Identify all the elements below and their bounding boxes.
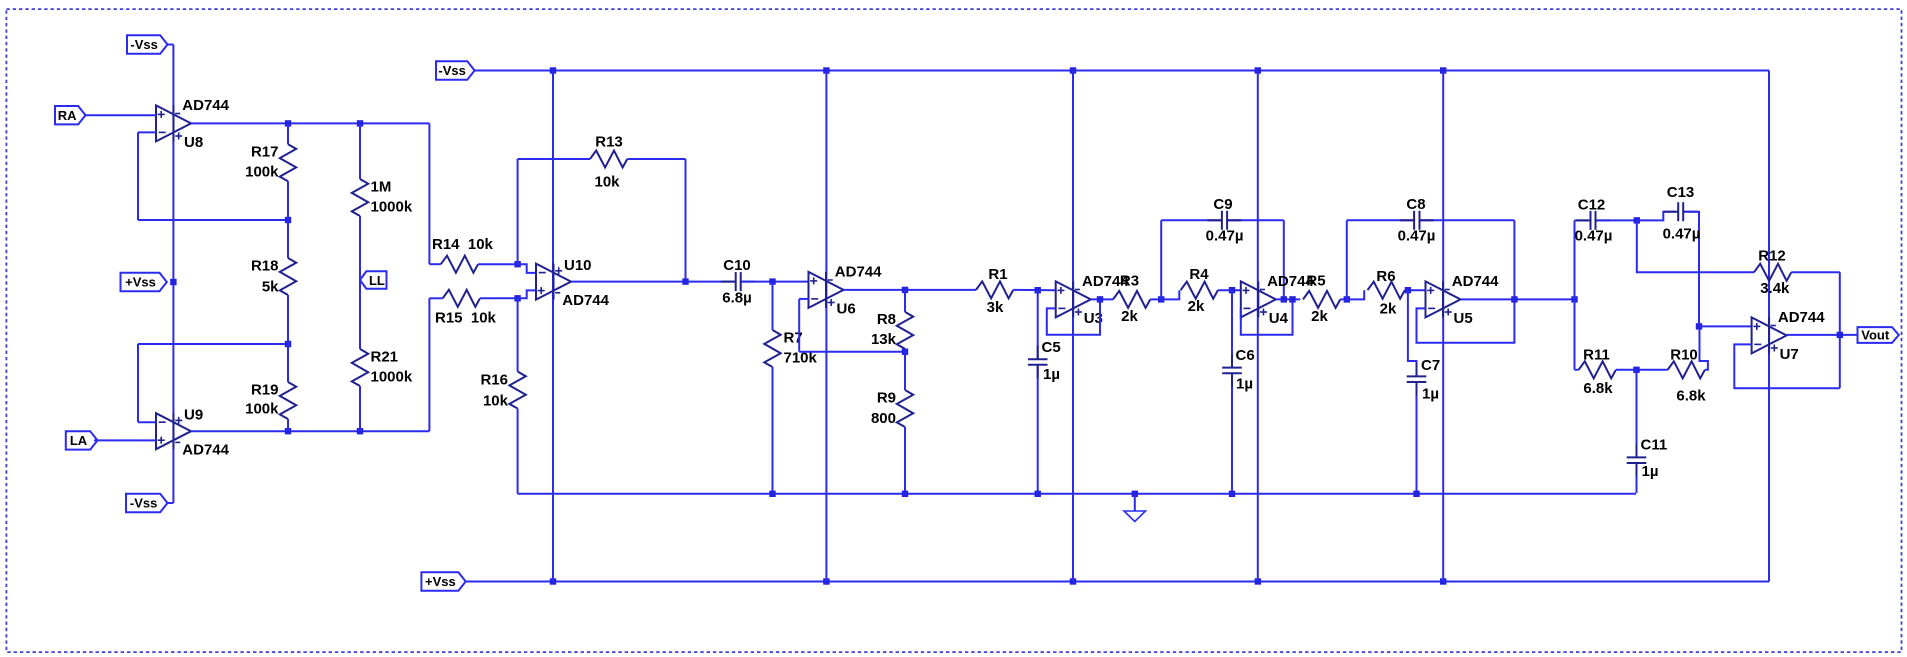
svg-text:1M: 1M [371,179,392,196]
svg-text:+Vss: +Vss [425,574,456,589]
svg-text:10k: 10k [594,174,620,191]
svg-text:C7: C7 [1421,357,1440,374]
svg-text:R4: R4 [1189,266,1209,283]
svg-text:2k: 2k [1188,298,1205,315]
svg-text:R8: R8 [877,311,896,328]
svg-text:R16: R16 [480,372,508,389]
svg-text:C13: C13 [1667,184,1695,201]
svg-text:1000k: 1000k [371,199,413,216]
svg-text:U8: U8 [184,134,203,151]
svg-text:C8: C8 [1406,196,1425,213]
svg-text:U10: U10 [564,257,592,274]
svg-text:AD744: AD744 [1452,273,1499,290]
svg-text:1000k: 1000k [371,369,413,386]
svg-text:AD744: AD744 [562,292,609,309]
svg-text:U9: U9 [184,407,203,424]
svg-text:800: 800 [871,410,896,427]
svg-text:R21: R21 [371,349,399,366]
svg-text:RA: RA [58,108,77,123]
svg-text:U7: U7 [1780,346,1799,363]
svg-text:-Vss: -Vss [130,37,157,52]
svg-text:1µ: 1µ [1642,463,1659,480]
svg-text:5k: 5k [262,279,279,296]
svg-text:R6: R6 [1376,268,1395,285]
svg-text:-Vss: -Vss [130,496,157,511]
svg-text:6.8k: 6.8k [1583,380,1613,397]
svg-text:R18: R18 [251,258,279,275]
svg-text:AD744: AD744 [182,441,229,458]
svg-text:AD744: AD744 [182,97,229,114]
svg-text:C11: C11 [1641,437,1668,454]
svg-text:C9: C9 [1213,196,1232,213]
svg-text:-Vss: -Vss [438,63,465,78]
svg-text:R1: R1 [988,266,1007,283]
svg-text:R5: R5 [1306,272,1325,289]
svg-text:LA: LA [70,433,88,448]
svg-text:+Vss: +Vss [125,275,156,290]
svg-text:C6: C6 [1236,347,1255,364]
svg-text:3.4k: 3.4k [1760,280,1790,297]
svg-text:6.8µ: 6.8µ [722,289,752,306]
svg-text:LL: LL [369,273,385,288]
svg-text:2k: 2k [1311,308,1328,325]
svg-text:R13: R13 [595,134,623,151]
svg-text:0.47µ: 0.47µ [1663,226,1701,243]
svg-text:3k: 3k [987,299,1004,316]
svg-text:U4: U4 [1269,310,1289,327]
svg-text:13k: 13k [871,331,897,348]
svg-text:R11: R11 [1583,347,1610,364]
svg-text:R9: R9 [877,390,896,407]
svg-text:R19: R19 [251,382,279,399]
svg-text:1µ: 1µ [1043,366,1060,383]
svg-text:100k: 100k [245,401,279,418]
svg-text:C12: C12 [1578,196,1606,213]
svg-text:AD744: AD744 [1778,309,1825,326]
svg-text:0.47µ: 0.47µ [1398,228,1436,245]
svg-text:0.47µ: 0.47µ [1575,228,1613,245]
svg-text:R15 10k: R15 10k [435,310,497,327]
svg-text:2k: 2k [1121,308,1138,325]
svg-text:R10: R10 [1670,347,1698,364]
svg-text:U5: U5 [1454,310,1473,327]
svg-text:1µ: 1µ [1236,375,1253,392]
svg-text:C5: C5 [1042,339,1061,356]
svg-text:100k: 100k [245,164,279,181]
svg-text:1µ: 1µ [1422,385,1439,402]
svg-text:R12: R12 [1758,248,1786,265]
svg-text:C10: C10 [723,257,751,274]
svg-text:6.8k: 6.8k [1676,388,1706,405]
svg-text:U6: U6 [837,301,856,318]
svg-text:Vout: Vout [1861,328,1890,343]
svg-text:R3: R3 [1120,272,1139,289]
svg-text:10k: 10k [483,393,509,410]
svg-text:R14 10k: R14 10k [432,236,494,253]
svg-text:AD744: AD744 [835,263,882,280]
svg-text:R17: R17 [251,144,279,161]
svg-text:0.47µ: 0.47µ [1206,228,1244,245]
svg-text:2k: 2k [1380,301,1397,318]
